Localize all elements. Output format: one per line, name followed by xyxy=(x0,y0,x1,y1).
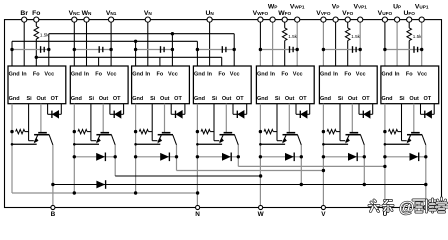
svg-text:1.5k: 1.5k xyxy=(413,34,422,39)
terminal VNC xyxy=(72,17,77,22)
svg-text:Fo: Fo xyxy=(32,10,40,17)
junction emitter/Gnd cell 2 xyxy=(73,143,76,146)
N emitter bus (gray) xyxy=(12,192,198,194)
svg-text:VFO: VFO xyxy=(342,10,353,17)
junction fwd/gnd cell 3 xyxy=(134,155,137,158)
wire WN input xyxy=(86,20,88,66)
junction fwd/collector cell 3 xyxy=(175,155,178,158)
wire VxP1 supply drop cell 7 xyxy=(421,20,423,66)
wire resistor to gate node cell 7 xyxy=(398,131,402,133)
wire VxP1 supply drop cell 6 xyxy=(359,20,361,66)
wire Br input xyxy=(23,20,25,66)
svg-text:VVP1: VVP1 xyxy=(353,4,367,11)
wire VxP1 supply drop cell 5 xyxy=(296,20,298,66)
junction stub/gnd cell 1 xyxy=(10,48,13,51)
IGBT Q2 emitter arrow xyxy=(96,138,101,144)
OT diode D5t xyxy=(299,111,301,118)
IGBT Q6 emitter arrow xyxy=(345,138,350,144)
svg-text:UFO: UFO xyxy=(403,10,415,17)
resistor 1.5k Fo pull-up xyxy=(34,26,39,39)
junction brake diode tap xyxy=(51,183,54,186)
svg-text:VNC: VNC xyxy=(69,10,81,17)
junction stub/VxFO cell 5 xyxy=(259,48,262,51)
terminal VWP1 xyxy=(295,17,300,22)
wire gray supply stub cell 5 xyxy=(260,49,297,51)
gate resistor cell 3 xyxy=(139,129,148,133)
junction gate resistor / Gnd cell 6 xyxy=(322,130,325,133)
terminal VN1 xyxy=(109,17,114,22)
svg-text:V: V xyxy=(321,211,326,218)
OT diode legs cell 4 xyxy=(232,104,234,115)
svg-text:Vcc: Vcc xyxy=(230,71,240,77)
svg-text:Gnd: Gnd xyxy=(194,96,205,102)
wire Out/collector gray drop cell 1 xyxy=(40,104,42,133)
svg-text:In: In xyxy=(270,71,276,77)
svg-text:VN1: VN1 xyxy=(106,10,117,17)
junction fwd/gnd cell 6 xyxy=(322,155,325,158)
terminal VVP1 xyxy=(358,17,363,22)
svg-text:VWFO: VWFO xyxy=(253,10,269,17)
svg-text:VN: VN xyxy=(144,10,153,17)
wire U phase route xyxy=(238,165,385,167)
gate driver IC U3 xyxy=(132,66,190,104)
junction stub/gnd cell 2 xyxy=(73,48,76,51)
gate driver IC U1 xyxy=(8,66,66,104)
P bus with brake diode xyxy=(53,184,426,186)
terminal V xyxy=(321,205,325,209)
capacitor C4 xyxy=(221,46,223,53)
svg-text:Gnd: Gnd xyxy=(9,71,20,77)
svg-text:OT: OT xyxy=(113,96,121,102)
svg-text:Gnd: Gnd xyxy=(320,71,331,77)
svg-text:Gnd: Gnd xyxy=(194,71,205,77)
svg-text:In: In xyxy=(145,71,151,77)
junction stub/vcc cell 2 xyxy=(109,48,112,51)
IGBT Q6 collector bar xyxy=(350,132,359,134)
wire driver Gnd / emitter rail cell 2 xyxy=(73,104,75,193)
OT diode legs cell 6 xyxy=(358,104,360,115)
IGBT Q6 output diagonal xyxy=(361,135,365,145)
svg-text:In: In xyxy=(395,71,401,77)
svg-text:Si: Si xyxy=(399,96,405,102)
wire xFO below resistor cell 5 xyxy=(284,41,286,66)
junction stub/VxFO cell 7 xyxy=(383,48,386,51)
IGBT Q5 emitter arrow xyxy=(282,138,287,144)
wire VNC drop xyxy=(73,20,75,66)
wire Fo terminal lead xyxy=(35,20,37,27)
wire Si pin drop cell 6 xyxy=(339,104,341,141)
gate resistor cell 1 xyxy=(16,129,25,133)
terminal VUP1 xyxy=(419,17,424,22)
wire driver Gnd / emitter rail cell 3 xyxy=(135,104,137,193)
terminal N xyxy=(196,205,200,209)
terminal WN xyxy=(84,17,89,22)
freewheel diode D4 xyxy=(222,153,231,161)
junction U route / U line xyxy=(383,165,386,168)
junction stub/VxP1 cell 6 xyxy=(359,48,362,51)
wire emitter to Gnd rail cell 1 xyxy=(12,143,37,145)
OT diode D4t xyxy=(236,111,238,118)
junction stub/gnd cell 3 xyxy=(134,48,137,51)
terminal UFO xyxy=(407,17,412,22)
wire VxFO drop cell 6 xyxy=(322,20,324,66)
svg-text:Fo: Fo xyxy=(406,71,413,77)
wire gray supply stub cell 7 xyxy=(385,49,422,51)
wire gate lead cell 6 xyxy=(340,140,345,142)
OT diode legs cell 7 xyxy=(420,104,422,115)
junction emitter/Gnd cell 5 xyxy=(259,143,262,146)
VN1 Vcc supply bus xyxy=(49,33,234,35)
gate driver IC U6 xyxy=(319,66,377,104)
wire Fo stub driver 3 xyxy=(159,57,161,66)
IGBT Q6 emitter lead xyxy=(346,135,349,142)
wire resistor to gate node cell 6 xyxy=(336,131,340,133)
wire V phase route xyxy=(177,170,324,172)
wire Si pin drop cell 1 xyxy=(28,104,30,141)
svg-text:OT: OT xyxy=(362,96,370,102)
svg-text:VUP1: VUP1 xyxy=(415,4,429,11)
svg-text:UN: UN xyxy=(205,10,214,17)
wire gate lead cell 2 xyxy=(91,140,96,142)
svg-text:VVFO: VVFO xyxy=(316,10,331,17)
wire Out/collector gray drop cell 2 xyxy=(102,104,104,133)
svg-text:Vcc: Vcc xyxy=(107,71,117,77)
svg-text:Gnd: Gnd xyxy=(9,96,20,102)
junction fwd/gnd cell 5 xyxy=(259,155,262,158)
junction fwd/collector cell 5 xyxy=(300,155,303,158)
svg-text:Fo: Fo xyxy=(95,71,102,77)
junction V route / V line xyxy=(322,169,325,172)
wire gate lead cell 4 xyxy=(214,140,219,142)
svg-text:Gnd: Gnd xyxy=(71,96,82,102)
wire Si pin drop cell 7 xyxy=(401,104,403,141)
junction Fo terminal / fault bus xyxy=(35,56,38,59)
IGBT Q1 emitter arrow xyxy=(34,138,39,144)
IGBT Q5 body bar xyxy=(283,134,298,136)
IGBT Q7 emitter lead xyxy=(407,135,410,142)
wire Out/collector gray drop cell 5 xyxy=(288,104,290,133)
svg-text:Vcc: Vcc xyxy=(44,71,54,77)
svg-text:OT: OT xyxy=(423,96,431,102)
resistor 1.5k xFO pull-up cell 5 xyxy=(282,28,287,41)
svg-text:Out: Out xyxy=(36,96,46,102)
junction emitter/Gnd cell 4 xyxy=(196,143,199,146)
OT diode legs cell 2 xyxy=(109,104,111,115)
IGBT Q4 collector bar xyxy=(224,132,233,134)
junction N bus / N line xyxy=(196,191,199,194)
junction stub/vcc cell 1 xyxy=(47,48,50,51)
terminal WP xyxy=(270,17,275,22)
IGBT Q5 emitter lead xyxy=(283,135,286,142)
svg-text:Gnd: Gnd xyxy=(132,71,143,77)
svg-text:WP: WP xyxy=(268,4,278,11)
wire Si pin drop cell 3 xyxy=(151,104,153,141)
IGBT Q1 output diagonal xyxy=(49,135,53,145)
IGBT Q1 body bar xyxy=(34,134,49,136)
capacitor C5 xyxy=(289,46,291,53)
wire VN1 drop xyxy=(110,20,112,66)
svg-text:Vcc: Vcc xyxy=(168,71,178,77)
junction emitter/Gnd cell 3 xyxy=(134,143,137,146)
svg-text:VUFO: VUFO xyxy=(378,10,393,17)
IGBT Q7 collector bar xyxy=(411,132,420,134)
wire VN collector drop xyxy=(176,145,178,171)
terminal VP xyxy=(333,17,338,22)
terminal VN xyxy=(145,17,150,22)
terminal VVFO xyxy=(321,17,326,22)
junction fwd/collector cell 2 xyxy=(114,155,117,158)
svg-text:OT: OT xyxy=(51,96,59,102)
junction N bus cell2 xyxy=(73,191,76,194)
junction gate resistor / Gnd cell 2 xyxy=(73,130,76,133)
wire VxFO drop cell 5 xyxy=(259,20,261,50)
wire gate lead cell 5 xyxy=(277,140,282,142)
svg-text:OT: OT xyxy=(174,96,182,102)
svg-text:Vcc: Vcc xyxy=(417,71,427,77)
wire Vcc drop to driver 1 xyxy=(48,34,50,66)
OT diode legs cell 5 xyxy=(295,104,297,115)
wire W phase route xyxy=(115,175,260,177)
wire WN collector drop xyxy=(114,145,116,176)
terminal WFO xyxy=(282,17,287,22)
terminal U xyxy=(383,205,387,209)
svg-text:Out: Out xyxy=(409,96,419,102)
freewheel diode D7 xyxy=(410,153,419,161)
svg-text:Out: Out xyxy=(160,96,170,102)
IGBT Q3 body bar xyxy=(158,134,173,136)
svg-text:Gnd: Gnd xyxy=(132,96,143,102)
terminal P xyxy=(424,205,428,209)
junction stub/VxP1 cell 7 xyxy=(420,48,423,51)
svg-text:Si: Si xyxy=(26,96,32,102)
junction gate resistor / Gnd cell 7 xyxy=(383,130,386,133)
wire Fo stub driver 2 xyxy=(98,57,100,66)
wire gate lead cell 3 xyxy=(152,140,157,142)
terminal Fo xyxy=(34,17,39,22)
wire driver Gnd / emitter rail cell 4 xyxy=(196,104,198,208)
wire emitter to Gnd rail cell 6 xyxy=(323,143,348,145)
junction WP collector / P bus xyxy=(300,183,303,186)
junction gate resistor / Gnd cell 4 xyxy=(196,130,199,133)
freewheel diode segment cell 3 xyxy=(136,156,177,158)
junction fwd/collector cell 7 xyxy=(424,155,427,158)
wire emitter to Gnd rail cell 3 xyxy=(136,143,161,145)
svg-text:1.5k: 1.5k xyxy=(40,32,49,37)
wire driver Gnd / emitter rail cell 5 xyxy=(259,104,261,208)
IGBT Q7 emitter arrow xyxy=(407,138,412,144)
junction fwd/gnd cell 4 xyxy=(196,155,199,158)
svg-text:Out: Out xyxy=(348,96,358,102)
wire Out/collector gray drop cell 6 xyxy=(351,104,353,133)
IGBT Q7 body bar xyxy=(407,134,422,136)
wire xFO terminal lead cell 5 xyxy=(284,20,286,28)
svg-text:Fo: Fo xyxy=(33,71,40,77)
wire VP collector drop xyxy=(363,145,365,185)
junction fwd/collector cell 4 xyxy=(237,155,240,158)
IGBT Q3 emitter lead xyxy=(158,135,161,142)
wire driver Gnd / emitter rail cell 6 xyxy=(322,104,324,208)
svg-text:Vcc: Vcc xyxy=(293,71,303,77)
resistor 1.5k xFO pull-up cell 7 xyxy=(407,28,412,41)
wire Si pin drop cell 5 xyxy=(276,104,278,141)
gate driver IC U7 xyxy=(381,66,439,104)
wire Si pin drop cell 4 xyxy=(213,104,215,141)
svg-text:Gnd: Gnd xyxy=(257,96,268,102)
wire gray supply stub cell 1 xyxy=(12,49,49,51)
svg-text:Si: Si xyxy=(212,96,218,102)
IGBT Q1 collector bar xyxy=(38,132,47,134)
IGBT Q2 output diagonal xyxy=(112,135,116,145)
junction Vcc bus / driver3 xyxy=(171,32,174,35)
wire Gnd drop to driver 3 xyxy=(135,41,137,66)
wire emitter to Gnd rail cell 2 xyxy=(74,143,99,145)
gate resistor cell 7 xyxy=(389,129,398,133)
wire Out/collector gray drop cell 7 xyxy=(413,104,415,133)
svg-text:N: N xyxy=(195,211,200,218)
IGBT Q2 body bar xyxy=(96,134,111,136)
wire gate lead cell 1 xyxy=(29,140,34,142)
IGBT Q3 emitter arrow xyxy=(157,138,162,144)
junction gate resistor / Gnd cell 5 xyxy=(259,130,262,133)
junction N bus cell3 xyxy=(134,191,137,194)
wire Vcc drop to driver 4 xyxy=(233,34,235,66)
wire gray supply stub cell 4 xyxy=(197,49,234,51)
wire UN collector drop xyxy=(237,145,239,167)
svg-text:Si: Si xyxy=(89,96,95,102)
wire resistor to gate node cell 3 xyxy=(148,131,152,133)
OT diode D2t xyxy=(113,111,115,118)
IGBT Q4 emitter arrow xyxy=(219,138,224,144)
IGBT Q4 body bar xyxy=(220,134,235,136)
svg-text:UP: UP xyxy=(393,4,401,11)
terminal VFO xyxy=(345,17,350,22)
svg-text:Gnd: Gnd xyxy=(257,71,268,77)
svg-text:Fo: Fo xyxy=(344,71,351,77)
gate driver IC U4 xyxy=(193,66,251,104)
junction fwd/gnd cell 7 xyxy=(383,155,386,158)
Fo fault bus xyxy=(36,56,221,58)
capacitor C1 xyxy=(40,46,42,53)
svg-text:Gnd: Gnd xyxy=(71,71,82,77)
svg-text:VP: VP xyxy=(332,4,340,11)
svg-text:Si: Si xyxy=(275,96,281,102)
wire emitter to Gnd rail cell 4 xyxy=(197,143,222,145)
freewheel diode segment cell 5 xyxy=(260,156,301,158)
IGBT Q4 emitter lead xyxy=(220,135,223,142)
IGBT Q3 output diagonal xyxy=(173,135,177,145)
wire Si pin drop cell 2 xyxy=(90,104,92,141)
junction stub/vcc cell 3 xyxy=(171,48,174,51)
svg-text:In: In xyxy=(207,71,213,77)
svg-text:Si: Si xyxy=(338,96,344,102)
wire UN input xyxy=(209,20,211,66)
gate driver IC U2 xyxy=(70,66,128,104)
IGBT Q2 emitter lead xyxy=(97,135,100,142)
wire gray supply stub cell 2 xyxy=(74,49,111,51)
gate resistor cell 6 xyxy=(327,129,336,133)
resistor 1.5k xFO pull-up cell 6 xyxy=(345,28,350,41)
junction W route / W line xyxy=(259,174,262,177)
terminal VWFO xyxy=(258,17,263,22)
wire xFO terminal lead cell 7 xyxy=(408,20,410,28)
svg-text:Vcc: Vcc xyxy=(356,71,366,77)
IGBT Q7 output diagonal xyxy=(422,135,426,145)
wire xFO below resistor cell 7 xyxy=(408,41,410,66)
gate resistor cell 5 xyxy=(264,129,273,133)
IGBT Q5 collector bar xyxy=(287,132,296,134)
junction fwd/gnd cell 2 xyxy=(73,155,76,158)
wire driver Gnd / emitter rail cell 1 xyxy=(11,104,13,193)
wire Out/collector gray drop cell 4 xyxy=(225,104,227,133)
junction VP collector / P bus xyxy=(363,183,366,186)
wire emitter to Gnd rail cell 5 xyxy=(260,143,285,145)
IGBT Q6 body bar xyxy=(346,134,361,136)
svg-text:Gnd: Gnd xyxy=(320,96,331,102)
wire xP input cell 5 xyxy=(272,20,274,66)
junction fwd/collector cell 6 xyxy=(363,155,366,158)
svg-text:@: @ xyxy=(399,200,414,217)
junction stub/vcc cell 4 xyxy=(233,48,236,51)
wire resistor to gate node cell 5 xyxy=(273,131,277,133)
junction ground bus / driver3 xyxy=(134,40,137,43)
IGBT Q5 output diagonal xyxy=(298,135,302,145)
OT diode legs cell 3 xyxy=(170,104,172,115)
wire Fo below resistor xyxy=(35,39,37,66)
capacitor C6 xyxy=(352,46,354,53)
wire gray supply stub cell 6 xyxy=(323,49,360,51)
svg-text:OT: OT xyxy=(299,96,307,102)
freewheel diode segment cell 7 xyxy=(385,156,426,158)
freewheel diode segment cell 2 xyxy=(74,156,115,158)
wire xP input cell 6 xyxy=(335,20,337,66)
VNC ground bus xyxy=(12,40,197,42)
junction stub/gnd cell 4 xyxy=(196,48,199,51)
wire UP collector drop to P xyxy=(425,145,427,208)
capacitor C3 xyxy=(160,46,162,53)
freewheel diode D5 xyxy=(285,153,294,161)
terminal B xyxy=(51,205,55,209)
IGBT Q2 collector bar xyxy=(101,132,110,134)
svg-text:Out: Out xyxy=(222,96,232,102)
svg-text:Br: Br xyxy=(20,10,28,17)
gate driver IC U5 xyxy=(256,66,314,104)
wire gate lead cell 7 xyxy=(402,140,407,142)
wire xP input cell 7 xyxy=(396,20,398,66)
wire brake collector to B xyxy=(52,145,54,208)
wire driver Gnd / emitter rail cell 7 xyxy=(384,104,386,208)
junction emitter/Gnd cell 1 xyxy=(11,143,14,146)
svg-text:Fo: Fo xyxy=(218,71,225,77)
svg-text:WFO: WFO xyxy=(278,10,291,17)
freewheel diode segment cell 6 xyxy=(323,156,364,158)
wire resistor to gate node cell 4 xyxy=(210,131,214,133)
OT diode D1t xyxy=(51,111,53,118)
svg-text:Out: Out xyxy=(99,96,109,102)
terminal UP xyxy=(395,17,400,22)
freewheel diode D2 xyxy=(96,153,105,161)
capacitor C2 xyxy=(98,46,100,53)
junction P bus / P line xyxy=(424,183,427,186)
wire gray supply stub cell 3 xyxy=(136,49,173,51)
freewheel diode segment cell 4 xyxy=(197,156,238,158)
wire xFO terminal lead cell 6 xyxy=(347,20,349,28)
svg-text:B: B xyxy=(51,211,56,218)
junction gate resistor / Gnd cell 1 xyxy=(10,130,13,133)
wire Fo stub driver 4 xyxy=(221,57,223,66)
module case outline frame xyxy=(5,20,442,208)
wire resistor to gate node cell 2 xyxy=(87,131,91,133)
svg-text:Si: Si xyxy=(150,96,156,102)
